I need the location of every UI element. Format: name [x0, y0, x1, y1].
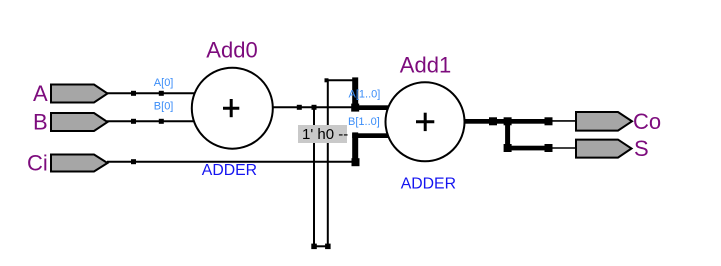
bus terminal square Co — [545, 117, 553, 125]
corner junction bottom-right — [325, 244, 331, 250]
bus stub B[1..0] into Add1 — [352, 133, 389, 138]
adder U2 Add1 circle — [386, 82, 465, 161]
svg-text:ADDER: ADDER — [202, 162, 257, 179]
wire thin to pin Co — [550, 120, 577, 122]
wire thin to pin S — [550, 147, 577, 149]
bus wire vertical drop x=507.6 — [505, 119, 510, 150]
adder U2 Add1 plus symbol — [416, 120, 434, 123]
wire Ci from pin Ci to Add1 B-bus bar — [107, 161, 353, 163]
wire B[0] from pin B to Add0 — [107, 120, 198, 122]
bus bar A[1..0] of Add1 — [352, 77, 358, 110]
svg-text:Add0: Add0 — [206, 38, 257, 63]
svg-text:Co: Co — [633, 109, 661, 134]
input pin B — [51, 113, 108, 131]
svg-text:B: B — [33, 110, 48, 135]
input pin Ci — [51, 155, 108, 172]
bus wire Add1 output thick — [464, 119, 549, 124]
junction on wire Ci at x=133 — [131, 159, 136, 164]
bus terminal square S — [545, 144, 553, 152]
bus bar B[1..0] of Add1 — [352, 132, 358, 165]
svg-text:S: S — [634, 136, 649, 161]
junction square on output bus at x=493 — [489, 117, 497, 125]
junction on Add0 output wire at x=299 — [297, 105, 302, 110]
bus wire bottom horizontal to S — [505, 146, 548, 151]
constant 1'h0 label box — [298, 125, 347, 143]
junction square on A bar bottom — [351, 104, 359, 112]
junction square Ci to B bar — [352, 158, 360, 166]
wire bottom horizontal segment y=246 — [314, 245, 328, 247]
junction T on Add0 output wire at x=313 — [312, 105, 317, 110]
junction on wire A[0] at x=161 — [159, 91, 164, 96]
corner junction bottom-left — [311, 244, 317, 250]
junction on wire B[0] at x=161 — [159, 119, 164, 124]
wire vertical feedback left segment x=313.5 — [313, 107, 315, 246]
junction on wire B[0] at x=133 — [131, 119, 136, 124]
input pin A — [51, 85, 108, 103]
wire top horizontal segment y=80 to A-bus bar — [327, 79, 354, 81]
svg-text:B[0]: B[0] — [154, 101, 174, 113]
svg-text:1' h0 --: 1' h0 -- — [302, 126, 348, 143]
svg-text:A: A — [33, 81, 48, 106]
svg-text:A[1..0]: A[1..0] — [349, 89, 381, 101]
svg-text:B[1..0]: B[1..0] — [348, 116, 380, 128]
corner junction top at (326.5,80.3) — [325, 78, 329, 82]
junction on wire A[0] at x=133 — [131, 91, 136, 96]
corner square at (507.6,148) — [504, 144, 512, 152]
wire A[0] from pin A to Add0 — [107, 92, 198, 94]
svg-text:A[0]: A[0] — [154, 77, 174, 89]
junction square on output bus at x=507.6 — [504, 117, 512, 125]
wire Add0 output to Add1 A-bus bar — [270, 106, 353, 108]
bus stub A[1..0] into Add1 — [352, 105, 389, 110]
output pin S — [576, 140, 632, 158]
adder U1 Add0 circle — [192, 68, 273, 149]
svg-text:Ci: Ci — [27, 151, 48, 176]
wire vertical feedback right segment x=327.8 — [327, 80, 329, 246]
adder U1 Add0 plus symbol — [223, 107, 239, 110]
output pin Co — [576, 112, 632, 131]
svg-text:ADDER: ADDER — [401, 176, 456, 193]
svg-text:Add1: Add1 — [400, 53, 451, 78]
